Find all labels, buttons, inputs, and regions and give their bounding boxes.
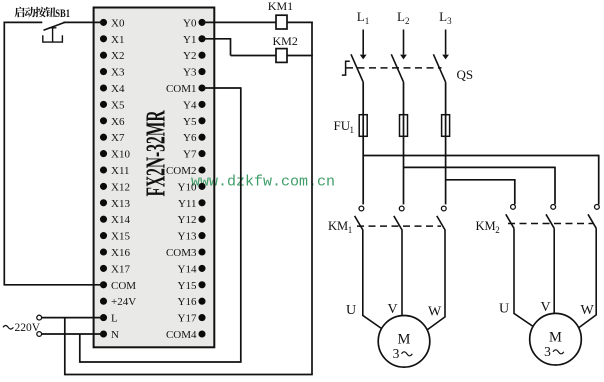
- motor M1 leads U V W: [363, 230, 445, 331]
- wire COM1 return: [80, 87, 242, 363]
- switch QS handle: [342, 61, 350, 75]
- svg-text:X6: X6: [111, 116, 125, 128]
- supply line L2 arrow: [400, 30, 407, 60]
- PLC output pin COM2: [166, 165, 206, 177]
- PLC input pin L: [100, 313, 118, 325]
- PLC input pin X2: [100, 50, 125, 62]
- svg-text:1: 1: [350, 125, 355, 135]
- label 启动按钮SB1 (start button SB1): [15, 7, 71, 20]
- fuse FU1 pole 1: [359, 115, 367, 137]
- svg-text:U: U: [346, 303, 356, 318]
- wire coil return vertical: [311, 22, 313, 375]
- motor M1 terminal labels U V W: [346, 302, 442, 320]
- svg-text:KM: KM: [328, 219, 348, 233]
- svg-text:X13: X13: [111, 198, 130, 210]
- svg-text:N: N: [111, 329, 119, 341]
- svg-text:Y10: Y10: [178, 181, 197, 193]
- PLC FX2N-32MR body: [94, 8, 215, 348]
- wire phase 1 branch to KM2 contact: [363, 155, 599, 205]
- svg-text:Y12: Y12: [178, 214, 197, 226]
- svg-text:COM4: COM4: [166, 329, 197, 341]
- wire SB1 left terminal: [4, 21, 43, 23]
- PLC output pin Y10: [178, 181, 206, 193]
- wire Y0 to KM1 coil: [202, 21, 276, 23]
- svg-text:Y5: Y5: [183, 116, 197, 128]
- svg-text:M: M: [398, 332, 411, 348]
- svg-text:3: 3: [393, 346, 400, 361]
- PLC output pin Y6: [183, 132, 206, 144]
- supply line L1 arrow: [360, 30, 367, 60]
- PLC input pin COM: [100, 280, 136, 292]
- svg-text:L: L: [397, 9, 405, 24]
- PLC input pin X1: [100, 34, 125, 46]
- contactor coil KM2: [273, 34, 298, 62]
- svg-text:www.dzkfw.com.cn: www.dzkfw.com.cn: [191, 173, 335, 190]
- svg-text:X4: X4: [111, 83, 125, 95]
- PLC input pin X13: [100, 198, 130, 210]
- svg-text:KM1: KM1: [268, 0, 293, 13]
- svg-text:1: 1: [348, 225, 353, 235]
- svg-text:L: L: [111, 313, 118, 325]
- PLC output pin Y13: [178, 231, 206, 243]
- svg-text:220V: 220V: [15, 322, 41, 334]
- svg-text:X10: X10: [111, 149, 130, 161]
- svg-text:3: 3: [544, 344, 551, 359]
- svg-text:X16: X16: [111, 247, 130, 259]
- supply line L3 label: [439, 9, 452, 26]
- wire Y1 to KM2 coil: [202, 38, 276, 56]
- PLC output pin Y4: [183, 99, 206, 111]
- pushbutton SB1 actuator: [43, 28, 63, 42]
- contactor KM2 main contacts: [506, 205, 600, 229]
- PLC input pin X16: [100, 247, 130, 259]
- svg-text:Y16: Y16: [178, 296, 197, 308]
- PLC input pin X0: [100, 17, 125, 29]
- PLC input pin X12: [100, 181, 130, 193]
- label ~220V: [3, 322, 41, 334]
- PLC input pin X17: [100, 263, 130, 275]
- svg-text:1: 1: [365, 16, 370, 26]
- wire L to PLC: [42, 317, 104, 319]
- supply line L3 arrow: [442, 30, 449, 60]
- motor M2 leads U V W: [514, 228, 596, 328]
- wire N to PLC: [42, 333, 104, 335]
- svg-text:Y15: Y15: [178, 280, 197, 292]
- svg-text:COM: COM: [111, 280, 136, 292]
- PLC output pin Y5: [183, 116, 206, 128]
- svg-text:X12: X12: [111, 181, 130, 193]
- wire KM2 coil to return: [287, 55, 313, 57]
- svg-text:X15: X15: [111, 231, 130, 243]
- svg-text:+24V: +24V: [111, 296, 136, 308]
- PLC output pin Y7: [183, 149, 206, 161]
- svg-text:COM2: COM2: [166, 165, 197, 177]
- svg-text:QS: QS: [457, 67, 474, 82]
- wire KM1 coil to return: [287, 21, 313, 23]
- PLC output pin COM4: [166, 329, 206, 341]
- PLC input pin X7: [100, 132, 125, 144]
- svg-text:KM: KM: [476, 219, 496, 233]
- PLC output pin COM3: [166, 247, 206, 259]
- svg-text:Y7: Y7: [183, 149, 197, 161]
- svg-text:V: V: [388, 302, 398, 317]
- PLC input pin X15: [100, 231, 130, 243]
- PLC input pin X14: [100, 214, 130, 226]
- svg-text:3: 3: [447, 16, 452, 26]
- svg-text:X11: X11: [111, 165, 130, 177]
- svg-text:U: U: [499, 302, 509, 317]
- svg-text:M: M: [549, 330, 562, 346]
- PLC input pin N: [100, 329, 119, 341]
- PLC FX2N-32MR border: [94, 8, 215, 348]
- svg-text:Y3: Y3: [183, 67, 197, 79]
- svg-text:L: L: [357, 9, 365, 24]
- PLC input pin +24V: [100, 296, 136, 308]
- PLC output pin Y11: [178, 198, 206, 210]
- motor M2 terminal labels U V W: [499, 300, 595, 318]
- pushbutton SB1 contact blade: [44, 22, 65, 30]
- PLC input pin X11: [100, 165, 130, 177]
- wire QS pole 1 to fuse: [362, 82, 364, 204]
- svg-text:Y1: Y1: [183, 34, 196, 46]
- svg-text:2: 2: [405, 16, 410, 26]
- terminal N: [37, 332, 42, 337]
- PLC input pin X10: [100, 149, 130, 161]
- svg-text:X14: X14: [111, 214, 130, 226]
- svg-text:Y0: Y0: [183, 17, 197, 29]
- fuse FU1 pole 3: [442, 115, 450, 137]
- PLC input pin X3: [100, 67, 125, 79]
- svg-text:2: 2: [495, 225, 500, 235]
- wire to COM: [4, 284, 104, 286]
- svg-text:X5: X5: [111, 99, 125, 111]
- label KM1: [328, 219, 352, 235]
- wire SB1 to X0: [63, 21, 103, 23]
- PLC output pin Y17: [178, 313, 206, 325]
- svg-text:Y11: Y11: [178, 198, 197, 210]
- wire SB1 down left side: [3, 22, 5, 285]
- PLC output pin Y16: [178, 296, 206, 308]
- PLC output pin Y12: [178, 214, 206, 226]
- svg-text:X2: X2: [111, 50, 124, 62]
- PLC output pin COM1: [166, 83, 206, 95]
- contactor KM1 main contacts: [355, 206, 447, 230]
- switch QS pole 3 blade: [433, 54, 445, 82]
- PLC output pin Y0: [183, 17, 206, 29]
- PLC output pin Y3: [183, 67, 206, 79]
- svg-text:X7: X7: [111, 132, 125, 144]
- supply line L2 label: [397, 9, 410, 26]
- svg-text:Y4: Y4: [183, 99, 197, 111]
- wire QS pole 3 to fuse: [445, 82, 447, 204]
- svg-text:Y6: Y6: [183, 132, 197, 144]
- PLC input pin X5: [100, 99, 125, 111]
- PLC output pin Y14: [178, 263, 206, 275]
- wire phase 2 branch to KM2 contact: [404, 167, 556, 205]
- switch QS pole 1 blade: [351, 54, 363, 82]
- svg-text:X3: X3: [111, 67, 125, 79]
- wire return up to L line: [64, 318, 66, 376]
- svg-text:W: W: [428, 305, 442, 320]
- wire coil return bottom: [65, 374, 313, 376]
- wire phase 3 branch to KM2 contact: [446, 179, 515, 204]
- svg-text:X1: X1: [111, 34, 124, 46]
- fuse FU1 pole 2: [400, 115, 408, 137]
- switch QS linkage dashed line: [346, 67, 442, 69]
- svg-text:SB1: SB1: [55, 8, 70, 20]
- svg-text:W: W: [581, 303, 595, 318]
- PLC output pin Y15: [178, 280, 206, 292]
- PLC output pin Y2: [183, 50, 206, 62]
- svg-text:Y17: Y17: [178, 313, 197, 325]
- supply line L1 label: [357, 9, 370, 26]
- PLC input pin X4: [100, 83, 125, 95]
- motor M2: [530, 313, 582, 365]
- svg-text:L: L: [439, 9, 447, 24]
- svg-text:FU: FU: [334, 118, 351, 133]
- svg-text:KM2: KM2: [273, 34, 298, 48]
- label KM2: [476, 219, 500, 235]
- label FU1: [334, 118, 355, 135]
- PLC output pin Y1: [183, 34, 206, 46]
- svg-text:X0: X0: [111, 17, 125, 29]
- svg-text:X17: X17: [111, 263, 130, 275]
- svg-text:FX2N-32MR: FX2N-32MR: [141, 110, 171, 196]
- PLC input pin X6: [100, 116, 125, 128]
- svg-text:COM3: COM3: [166, 247, 197, 259]
- svg-text:V: V: [541, 300, 551, 315]
- svg-text:Y13: Y13: [178, 231, 197, 243]
- svg-text:Y14: Y14: [178, 263, 197, 275]
- svg-text:COM1: COM1: [166, 83, 197, 95]
- svg-text:Y2: Y2: [183, 50, 196, 62]
- contactor coil KM1: [268, 0, 293, 29]
- wire QS pole 2 to fuse: [403, 82, 405, 204]
- motor M1: [378, 316, 430, 368]
- terminal L: [37, 315, 42, 320]
- switch QS pole 2 blade: [391, 54, 403, 82]
